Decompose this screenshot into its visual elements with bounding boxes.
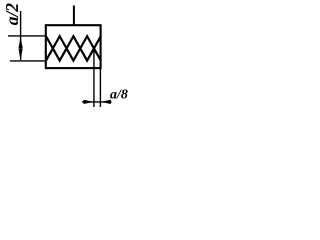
zigzag element upper strand bbox=[46, 36, 101, 48]
extension line a/8 right (edge extended) bbox=[99, 68, 101, 107]
arrowhead left-pointing a/8 bbox=[100, 100, 111, 104]
extension line upper left bbox=[8, 35, 46, 37]
arrowhead right-pointing a/8 bbox=[84, 100, 94, 104]
extension line a/8 left (from last crossing) bbox=[93, 48, 95, 107]
extension line lower left bbox=[10, 60, 46, 62]
dimension line a/8 horizontal bbox=[82, 101, 112, 103]
dimension line a/2 vertical bbox=[20, 11, 22, 60]
arrowhead up a/2 bbox=[19, 36, 23, 48]
zigzag element lower strand bbox=[46, 48, 101, 60]
component body rectangle bbox=[46, 25, 101, 68]
svg-text:a/2: a/2 bbox=[2, 3, 22, 26]
svg-text:a/8: a/8 bbox=[110, 87, 128, 102]
arrowhead down a/2 bbox=[19, 49, 23, 61]
top lead wire bbox=[73, 6, 75, 26]
